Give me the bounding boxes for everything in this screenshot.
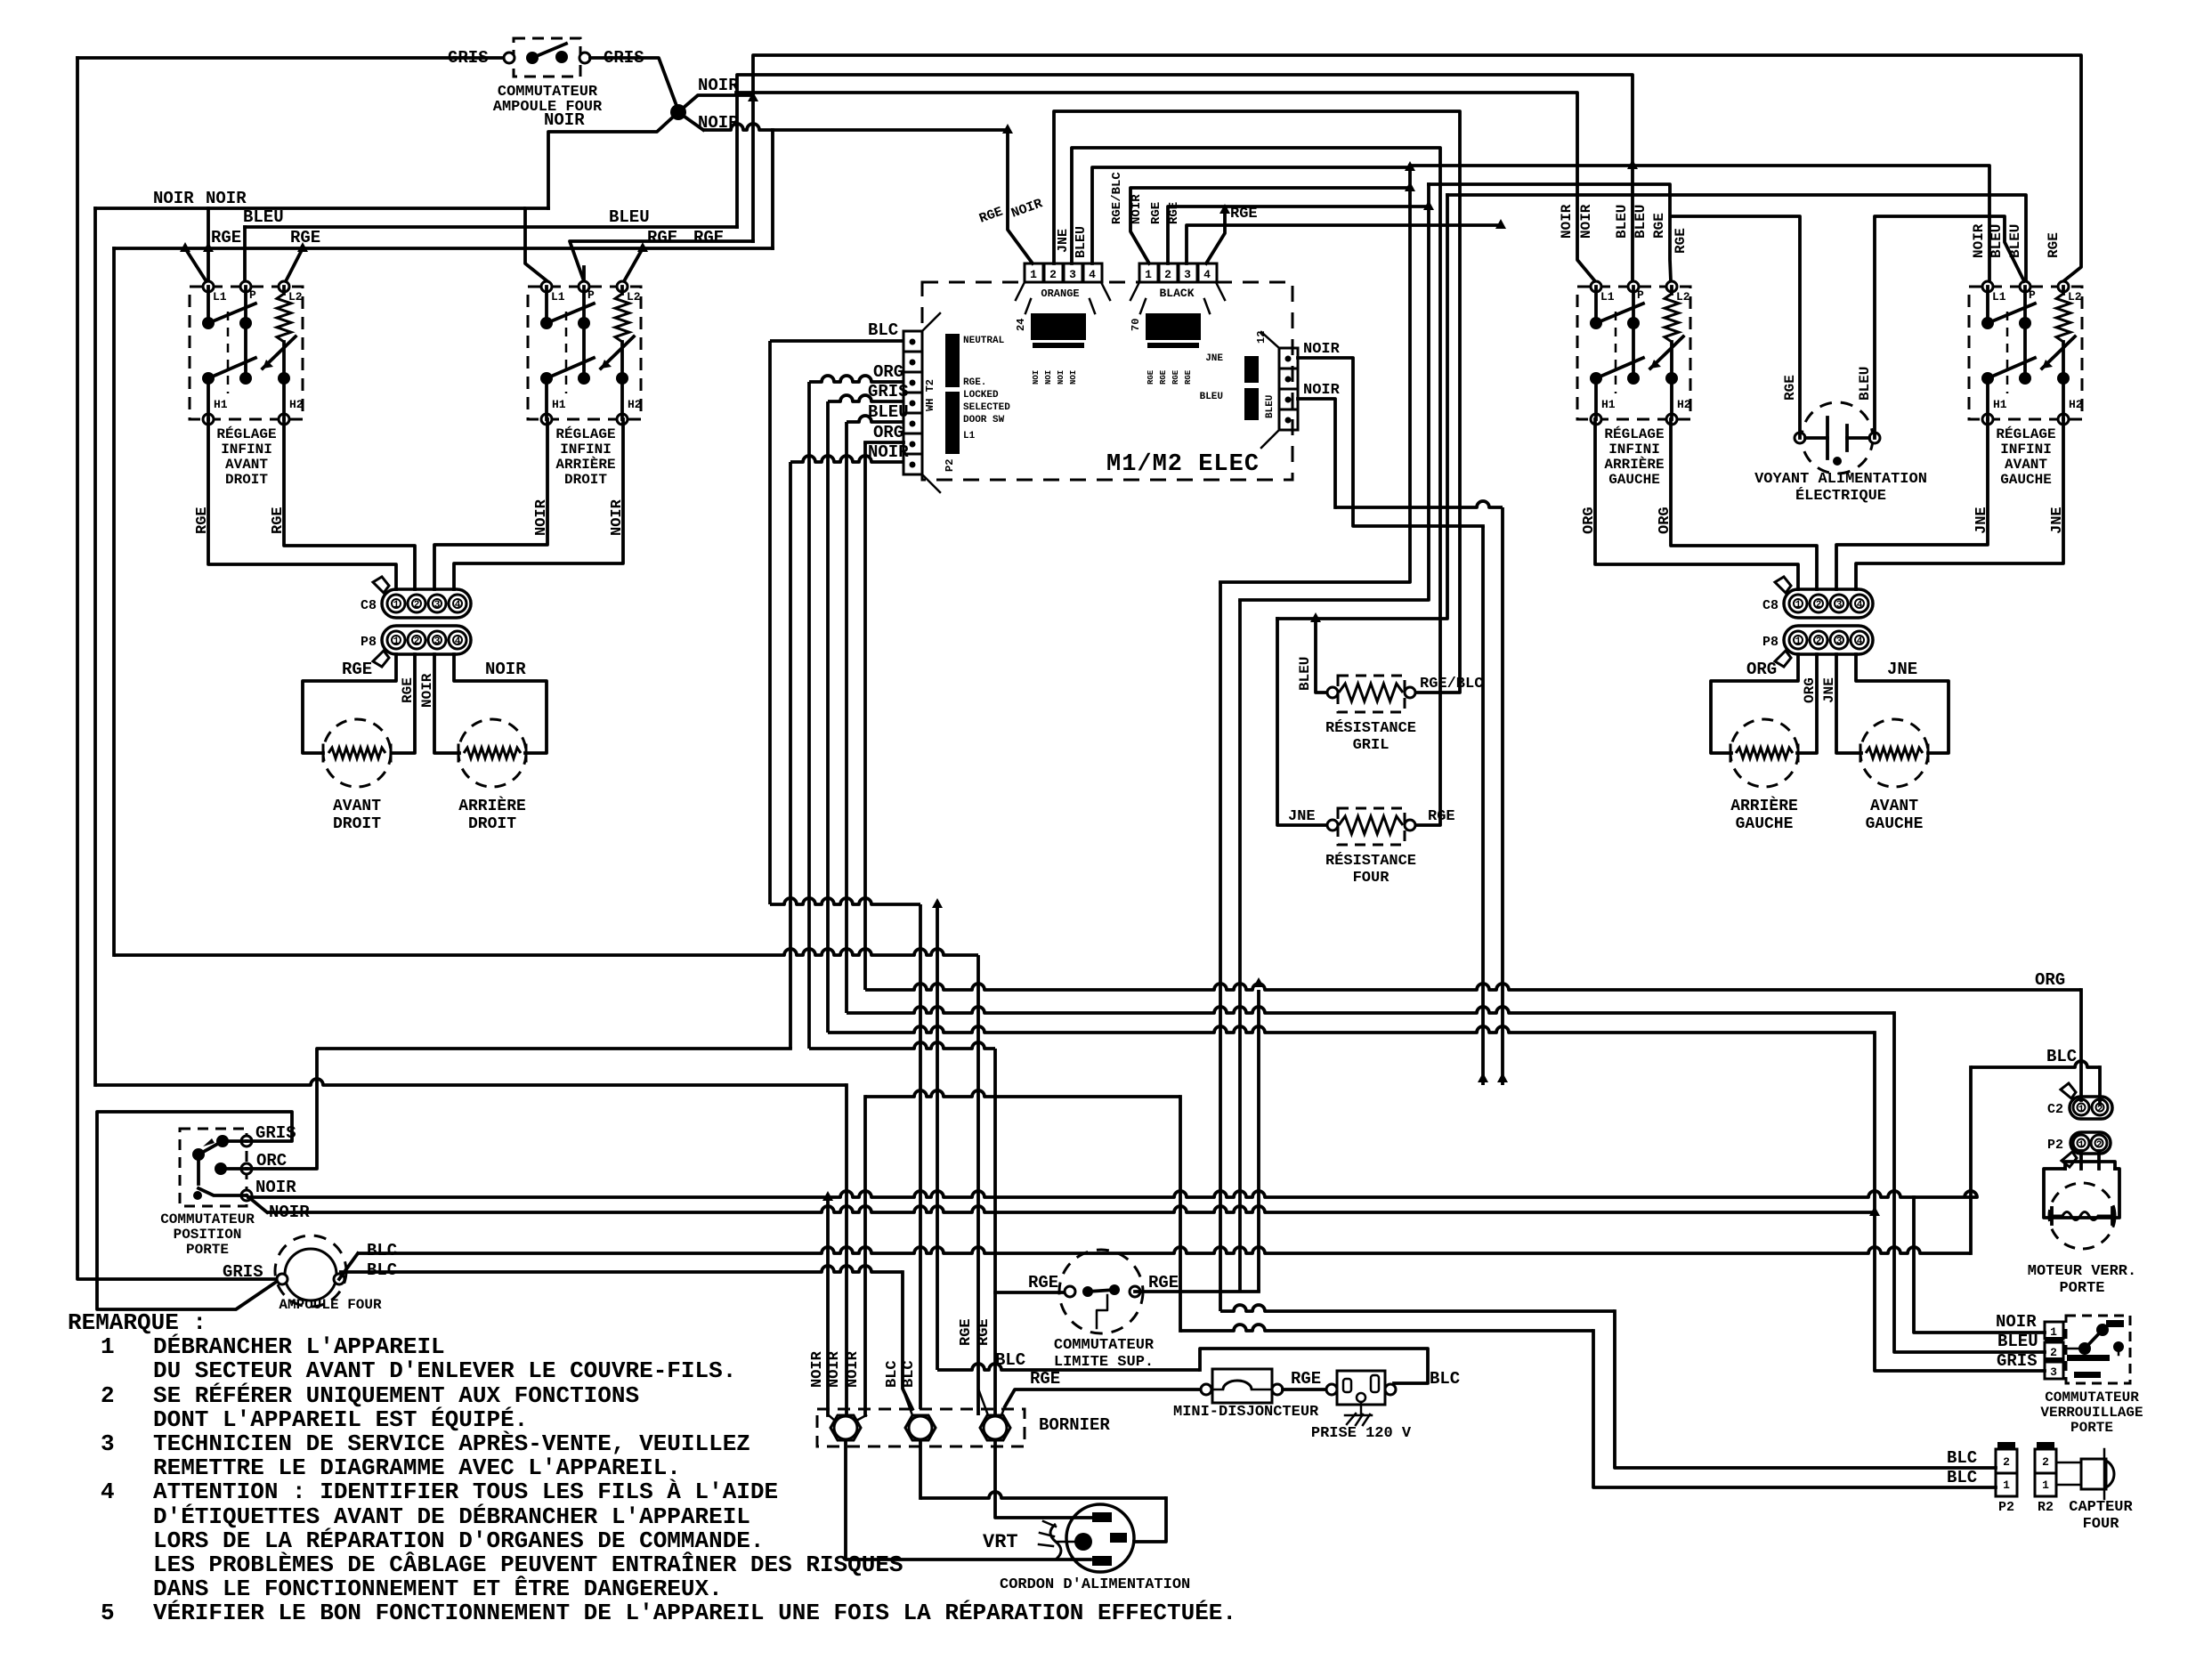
wire NOIR drop to L1 left switch: [207, 208, 210, 281]
wire RGE to voyant: [1671, 216, 1800, 438]
connector R2 capteur: [2035, 1449, 2056, 1473]
funnel BLACK: [1130, 282, 1139, 300]
svg-text:RGE: RGE: [1028, 1273, 1058, 1292]
wire BLC to bornier post2 from lamp: [903, 1272, 912, 1409]
svg-text:L1: L1: [1600, 290, 1615, 304]
svg-text:NOIR: NOIR: [845, 1350, 862, 1388]
wire capteur BLC lower chain: [1179, 1097, 1182, 1331]
svg-text:L1: L1: [213, 290, 227, 304]
capteur four sensor bulb: [2056, 1462, 2081, 1464]
wire ORG riser down to limite sup line: [807, 382, 811, 1049]
svg-text:P2: P2: [1998, 1500, 2014, 1515]
svg-text:M1/M2 ELEC: M1/M2 ELEC: [1106, 451, 1260, 478]
svg-text:NOI: NOI: [1069, 370, 1078, 385]
svg-text:AVANT: AVANT: [2005, 457, 2047, 473]
switch reglage infini arriere droit: [528, 287, 641, 419]
svg-text:RÉGLAGE: RÉGLAGE: [1604, 425, 1664, 442]
svg-text:ARRIÈRE: ARRIÈRE: [1730, 796, 1798, 815]
svg-text:PORTE: PORTE: [186, 1242, 229, 1258]
svg-text:NOIR: NOIR: [206, 189, 247, 208]
svg-text:NOIR: NOIR: [544, 110, 585, 130]
wire NOIR2 door bus: [247, 1195, 267, 1212]
wire RGE diagonal to L2 second switch: [624, 248, 643, 281]
svg-text:GAUCHE: GAUCHE: [1608, 472, 1660, 488]
svg-text:H2: H2: [628, 398, 642, 411]
svg-text:4: 4: [101, 1479, 115, 1505]
svg-text:12: 12: [1255, 331, 1268, 344]
connector P8 left: [382, 626, 471, 654]
svg-text:BLEU: BLEU: [1200, 392, 1223, 402]
svg-text:RÉSISTANCE: RÉSISTANCE: [1325, 719, 1416, 737]
svg-text:JNE: JNE: [1973, 506, 1990, 534]
svg-text:NOIR: NOIR: [153, 189, 194, 208]
wire post3 down to plug top: [995, 1440, 1092, 1518]
svg-text:INFINI: INFINI: [2000, 442, 2052, 458]
svg-text:RGE/BLC: RGE/BLC: [1110, 172, 1124, 224]
wire right P8 pin3 to avant gauche burner left: [1836, 654, 1861, 753]
svg-text:2: 2: [2050, 1346, 2057, 1359]
svg-text:LOCKED: LOCKED: [963, 390, 999, 401]
wire GREEN pin1 diagonal NOIR: [1008, 130, 1033, 263]
svg-text:RGE: RGE: [211, 228, 241, 247]
svg-text:2: 2: [101, 1382, 115, 1409]
svg-text:RGE: RGE: [976, 1318, 993, 1346]
svg-text:P2: P2: [944, 459, 956, 472]
switch reglage infini arriere gauche: [1577, 287, 1690, 419]
wire right P8 pin4 to avant gauche burner right: [1856, 654, 1949, 753]
svg-text:P: P: [2029, 288, 2036, 302]
wire NOIR lower from X going right: [703, 124, 773, 130]
svg-text:BLEU: BLEU: [1614, 205, 1630, 239]
wire NOIR verrouillage drop: [1914, 1197, 2045, 1333]
svg-text:LORS DE LA RÉPARATION D'ORGANE: LORS DE LA RÉPARATION D'ORGANES DE COMMA…: [153, 1527, 765, 1554]
svg-text:RGE: RGE: [1148, 1273, 1179, 1292]
svg-text:GRIL: GRIL: [1353, 737, 1390, 754]
svg-text:NOIR: NOIR: [1996, 1312, 2037, 1332]
svg-text:RÉSISTANCE: RÉSISTANCE: [1325, 852, 1416, 870]
svg-text:DROIT: DROIT: [333, 815, 381, 833]
wire riser x1666 to band: [1481, 526, 1485, 1085]
svg-text:2: 2: [1816, 600, 1822, 611]
svg-text:GRIS: GRIS: [223, 1262, 263, 1282]
switch reglage infini avant gauche: [1969, 287, 2082, 419]
svg-text:NOIR: NOIR: [1303, 382, 1341, 399]
svg-text:NOI: NOI: [1044, 370, 1053, 385]
svg-text:1: 1: [393, 600, 400, 611]
svg-text:VRT: VRT: [983, 1531, 1018, 1553]
wire VRT ground to plug: [1057, 1541, 1074, 1543]
svg-text:RGE.: RGE.: [963, 377, 986, 388]
svg-text:RGE: RGE: [1030, 1369, 1060, 1389]
svg-text:ORG: ORG: [1657, 506, 1673, 534]
wire BLC down to bornier post2: [919, 904, 922, 1409]
wire BLC lower run: [770, 898, 920, 904]
svg-text:1: 1: [101, 1333, 115, 1360]
wire NOIR door bus: [247, 1191, 1977, 1197]
wire P8 pin4 to arriere droit burner right: [454, 654, 547, 753]
svg-text:C8: C8: [361, 598, 377, 613]
svg-text:RGE: RGE: [693, 228, 724, 247]
moteur verrouillage porte door lock motor: [2079, 1151, 2083, 1169]
wire limite sup riser x1414: [1257, 990, 1260, 1292]
wire limite sup right to riser U: [1135, 1290, 1259, 1293]
svg-text:GRIS: GRIS: [868, 382, 909, 401]
wire NOIR upper from X to bus: [678, 95, 753, 112]
wire GRIS from 7-pin: [828, 395, 903, 401]
svg-text:GAUCHE: GAUCHE: [1866, 815, 1924, 833]
svg-text:L2: L2: [1676, 290, 1690, 304]
connector C2: [2070, 1097, 2112, 1119]
svg-text:BLC: BLC: [868, 320, 898, 340]
svg-text:C8: C8: [1762, 598, 1779, 613]
svg-text:JNE: JNE: [2049, 506, 2066, 534]
wire bus Y84 BLEU to rear-left switch P: [737, 75, 1633, 281]
svg-text:RGE: RGE: [1428, 808, 1455, 825]
svg-text:DROIT: DROIT: [468, 815, 516, 833]
verrouillage switch box: [2066, 1316, 2130, 1383]
svg-text:MOTEUR VERR.: MOTEUR VERR.: [2028, 1263, 2136, 1280]
black bars BLACK: [1146, 313, 1201, 340]
wire BLACK pin1 up: [1130, 188, 1410, 263]
svg-text:NOIR: NOIR: [1130, 194, 1144, 224]
wire ORG2 riser down to band: [863, 442, 867, 990]
svg-text:BLEU: BLEU: [1997, 1332, 2038, 1351]
wire staircase Y654: [1220, 166, 1410, 582]
svg-text:DROIT: DROIT: [564, 472, 607, 488]
wire RGE diagonal to L1 left switch: [185, 248, 207, 283]
svg-text:NOIR: NOIR: [609, 498, 626, 536]
wire verrouillage GRIS drop: [1875, 1033, 2045, 1371]
wire four left drop: [1277, 619, 1333, 825]
wire H1 avant gauche to right C8 pin3: [1836, 419, 1988, 589]
wire left rail x87 down to lamp: [77, 58, 277, 1279]
svg-text:BLC: BLC: [1947, 1468, 1977, 1487]
svg-text:R2: R2: [2038, 1500, 2054, 1515]
funnel post2: [903, 1389, 912, 1415]
svg-text:H1: H1: [214, 398, 228, 411]
svg-text:BLC: BLC: [367, 1260, 397, 1280]
wire BLC prise return: [937, 1364, 1200, 1370]
svg-text:COMMUTATEUR: COMMUTATEUR: [160, 1211, 255, 1227]
wire staircase Y674: [1240, 184, 1429, 600]
svg-text:DU SECTEUR AVANT D'ENLEVER LE: DU SECTEUR AVANT D'ENLEVER LE COUVRE-FIL…: [153, 1357, 736, 1384]
svg-text:RGE/BLC: RGE/BLC: [1420, 676, 1483, 693]
wire gril left drop BLEU: [1316, 619, 1326, 693]
svg-text:PORTE: PORTE: [2070, 1420, 2113, 1436]
svg-text:H2: H2: [1677, 398, 1691, 411]
svg-text:WH T2: WH T2: [924, 379, 936, 411]
svg-text:NOIR: NOIR: [1971, 223, 1987, 258]
wire GRIS from left rail to oven-lamp switch: [77, 56, 504, 60]
svg-text:POSITION: POSITION: [174, 1227, 242, 1243]
svg-text:2: 2: [2003, 1455, 2010, 1469]
connector C8 right: [1784, 589, 1873, 618]
wire NOIR from X down-left to GREEN connector pin1 riser: [773, 128, 1008, 132]
connector GREEN 4-pin: [1025, 263, 1043, 282]
wire BLC riser down: [768, 341, 772, 904]
svg-text:CAPTEUR: CAPTEUR: [2069, 1499, 2133, 1516]
wire limite sup riser x1393: [1238, 600, 1242, 1292]
black bars 7-pin: [945, 334, 960, 387]
ground symbol prise: [1360, 1402, 1363, 1414]
wire RGE bus row left: [114, 247, 773, 250]
svg-text:RGE: RGE: [342, 660, 372, 679]
svg-text:H2: H2: [2069, 398, 2083, 411]
svg-text:BLC: BLC: [884, 1360, 901, 1388]
wire NOIR bus row left: [95, 208, 547, 281]
svg-text:RGE: RGE: [1230, 206, 1258, 223]
wire BLEU to voyant: [1875, 216, 2024, 438]
svg-text:2: 2: [2097, 1105, 2103, 1115]
svg-text:JNE: JNE: [1288, 808, 1316, 825]
bornier terminal block: [817, 1409, 1025, 1446]
svg-text:RGE: RGE: [1149, 202, 1163, 224]
wire BLEU drop to left switch P: [243, 227, 247, 281]
svg-text:4: 4: [1857, 600, 1863, 611]
wire GRIS riser down to band: [826, 401, 830, 1033]
svg-text:P: P: [249, 288, 256, 302]
cordon d'alimentation plug: [1066, 1504, 1134, 1572]
svg-text:INFINI: INFINI: [221, 442, 272, 458]
svg-text:RGE: RGE: [1782, 375, 1798, 401]
svg-text:BORNIER: BORNIER: [1039, 1415, 1110, 1435]
wire bus Y219 to front-left switch P: [1447, 195, 2026, 281]
svg-text:BLACK: BLACK: [1159, 287, 1194, 300]
svg-text:BLC: BLC: [1430, 1369, 1460, 1389]
svg-text:RÉGLAGE: RÉGLAGE: [555, 425, 615, 442]
svg-text:ORG: ORG: [1581, 506, 1598, 534]
wire BLACK pin4 diagonal RGE: [1206, 210, 1225, 263]
wire P8 pin2 to avant droit burner right: [392, 654, 415, 753]
svg-text:4: 4: [1857, 636, 1863, 647]
wire RGE diagonal to L2 left switch: [286, 248, 303, 281]
node X junction: [670, 104, 686, 120]
svg-text:TECHNICIEN DE SERVICE APRÈS-VE: TECHNICIEN DE SERVICE APRÈS-VENTE, VEUIL…: [153, 1430, 750, 1457]
wire riser second switch P from BLEU: [582, 267, 586, 281]
wire Y1178 right to limite riser: [809, 1042, 995, 1049]
svg-text:VERROUILLAGE: VERROUILLAGE: [2040, 1405, 2143, 1421]
resistance four: [1338, 808, 1405, 845]
svg-text:RGE: RGE: [194, 506, 211, 534]
svg-text:BLEU: BLEU: [1989, 224, 2005, 258]
wire ORC door line to 7-pin NOIR riser: [247, 1049, 790, 1169]
svg-text:RGE: RGE: [400, 677, 416, 703]
connector P2 motor: [2070, 1132, 2111, 1154]
wire RGE to mini-disjoncteur: [1005, 1389, 1201, 1406]
mini-disjoncteur: [1212, 1369, 1272, 1403]
wire bus Y207 to rear-left switch L2: [1429, 184, 1671, 281]
svg-text:DÉBRANCHER L'APPAREIL: DÉBRANCHER L'APPAREIL: [153, 1333, 445, 1360]
wire verrouillage BLEU drop: [1894, 1013, 2045, 1352]
wire capteur riser x1371: [1219, 582, 1222, 1311]
svg-text:GRIS: GRIS: [1997, 1351, 2038, 1371]
svg-text:SE RÉFÉRER UNIQUEMENT AUX FONC: SE RÉFÉRER UNIQUEMENT AUX FONCTIONS: [153, 1382, 639, 1409]
wire rail x128 down: [112, 248, 116, 955]
funnel post1: [829, 1415, 835, 1421]
wire BLEU from 7-pin: [847, 416, 903, 422]
wire ORG from 7-pin: [809, 376, 903, 382]
trapezoid BLACK: [1140, 299, 1146, 313]
wire bus Y188 from M1/M2 pin4: [1092, 167, 1410, 263]
prise 120V outlet: [1337, 1371, 1385, 1405]
wire riser x1099 down to bornier post3: [976, 955, 980, 1415]
svg-text:PRISE 120 V: PRISE 120 V: [1311, 1425, 1412, 1442]
wire P8 pin3 to arriere droit burner left: [434, 654, 459, 753]
svg-text:RGE: RGE: [1147, 369, 1155, 385]
connector C8 left: [382, 589, 471, 618]
svg-text:NOIR: NOIR: [1303, 341, 1341, 358]
wire BLEU riser down to band: [845, 422, 848, 1013]
svg-text:L1: L1: [1992, 290, 2006, 304]
svg-text:70: 70: [1130, 319, 1142, 331]
wire band Y1138 to verrouillage BLEU: [847, 1007, 1894, 1013]
svg-text:RGE: RGE: [290, 228, 320, 247]
svg-text:ARRIÈRE: ARRIÈRE: [458, 796, 526, 815]
svg-text:P: P: [587, 288, 595, 302]
wire BLEU diagonal to second switch P: [570, 241, 753, 281]
wire BLC lamp lower: [339, 1266, 903, 1272]
svg-text:AVANT: AVANT: [225, 457, 268, 473]
wire bus Y166 from M1/M2 pin3 to resistance four: [1072, 148, 1440, 825]
svg-text:4: 4: [455, 600, 461, 611]
wire post2 down to plug loop: [920, 1492, 1166, 1498]
svg-text:RGE: RGE: [1184, 369, 1193, 385]
connector M1/M2 right 4-pin: [1279, 348, 1298, 369]
svg-text:3: 3: [1836, 636, 1843, 647]
wire H1 left switch down to C8 pin1: [208, 419, 396, 589]
svg-text:RGE: RGE: [1171, 369, 1180, 385]
svg-text:NOIR: NOIR: [419, 673, 435, 708]
wire BLC lamp upper to C2 riser: [339, 1253, 358, 1279]
burner arriere gauche: [1730, 719, 1798, 787]
commutateur verrouillage porte switch pins: [2045, 1322, 2063, 1339]
svg-text:BLEU: BLEU: [868, 402, 909, 422]
burner avant droit: [323, 719, 391, 787]
svg-text:BLEU: BLEU: [1857, 367, 1873, 401]
ground symbol VRT: [1050, 1524, 1061, 1560]
wire post1 down to plug: [846, 1440, 1090, 1560]
svg-text:P2: P2: [2047, 1138, 2063, 1153]
wire GRIS door loop: [97, 1112, 292, 1309]
svg-text:4: 4: [455, 636, 461, 647]
svg-text:LES PROBLÈMES DE CÂBLAGE PEUVE: LES PROBLÈMES DE CÂBLAGE PEUVENT ENTRAÎN…: [153, 1551, 903, 1578]
svg-text:ORG: ORG: [873, 423, 903, 442]
svg-text:1: 1: [1795, 600, 1802, 611]
wire riser x1688 to band: [1501, 507, 1504, 1085]
svg-text:2: 2: [1816, 636, 1822, 647]
svg-text:RGE: RGE: [1167, 202, 1181, 224]
wire BLC riser x1053: [936, 904, 939, 1370]
svg-text:3: 3: [434, 636, 441, 647]
svg-text:L2: L2: [2068, 290, 2082, 304]
svg-text:BLC: BLC: [1947, 1448, 1977, 1468]
svg-text:GAUCHE: GAUCHE: [2000, 472, 2052, 488]
svg-text:NOIR: NOIR: [868, 442, 909, 462]
svg-text:NOIR: NOIR: [485, 660, 526, 679]
wire BLEU2 riser corner: [751, 95, 755, 241]
svg-text:H1: H1: [1601, 398, 1616, 411]
svg-text:RÉGLAGE: RÉGLAGE: [216, 425, 276, 442]
svg-text:COMMUTATEUR: COMMUTATEUR: [1054, 1337, 1155, 1354]
black bars GREEN: [1031, 313, 1086, 340]
svg-text:AVANT: AVANT: [1870, 798, 1918, 815]
wire riser limite sup RGE from post3: [993, 1049, 997, 1415]
svg-text:ORG: ORG: [873, 362, 903, 382]
svg-text:BLEU: BLEU: [1297, 657, 1313, 691]
wire band Y1073 to bornier post3 riser: [114, 949, 978, 955]
svg-text:BLEU: BLEU: [1074, 226, 1089, 258]
wire NOIR right connector pin1: [1298, 358, 1483, 526]
commutateur position porte door switch: [180, 1129, 247, 1206]
svg-text:NOI: NOI: [1057, 370, 1065, 385]
resistance gril: [1338, 676, 1405, 712]
svg-text:NOI: NOI: [1032, 370, 1041, 385]
funnel right connector: [1261, 332, 1279, 348]
svg-text:INFINI: INFINI: [560, 442, 612, 458]
svg-text:BLC: BLC: [901, 1360, 918, 1388]
wire NOIR right connector pin3: [1298, 399, 1335, 507]
svg-text:BLC: BLC: [367, 1241, 397, 1260]
svg-text:L1: L1: [551, 290, 565, 304]
svg-text:RÉGLAGE: RÉGLAGE: [1996, 425, 2055, 442]
svg-text:2: 2: [2042, 1455, 2049, 1469]
svg-text:DONT L'APPAREIL EST ÉQUIPÉ.: DONT L'APPAREIL EST ÉQUIPÉ.: [153, 1406, 528, 1433]
wire P8 pin1 to avant droit burner: [303, 654, 396, 753]
svg-text:H2: H2: [289, 398, 304, 411]
svg-text:2: 2: [1164, 268, 1171, 281]
wire H2 second switch down to C8 pin4: [454, 419, 623, 589]
svg-text:FOUR: FOUR: [1353, 870, 1390, 887]
wire H1 second switch down to C8 pin3: [434, 419, 547, 589]
svg-text:BLEU: BLEU: [243, 207, 284, 227]
wire right P8 pin2 to arriere gauche burner right: [1797, 654, 1817, 753]
svg-text:BLEU: BLEU: [1633, 205, 1649, 239]
svg-text:1: 1: [1030, 268, 1037, 281]
svg-text:COMMUTATEUR: COMMUTATEUR: [2045, 1389, 2139, 1406]
wire right P8 pin1 to arriere gauche burner: [1711, 654, 1798, 753]
wire staircase Y695: [1277, 195, 1447, 619]
svg-text:3: 3: [1184, 268, 1191, 281]
wire H2 left switch down to C8 pin2: [284, 419, 415, 589]
svg-text:P8: P8: [1762, 635, 1779, 650]
ampoule four oven lamp: [275, 1235, 346, 1307]
svg-text:3: 3: [434, 600, 441, 611]
svg-text:1: 1: [2078, 1105, 2085, 1115]
wire ORG2 from 7-pin: [865, 441, 903, 444]
svg-text:D'ÉTIQUETTES AVANT DE DÉBRANCH: D'ÉTIQUETTES AVANT DE DÉBRANCHER L'APPAR…: [153, 1503, 750, 1530]
burner arriere droit: [458, 719, 526, 787]
svg-text:2: 2: [414, 636, 420, 647]
wire band Y1112 ORG to C2: [865, 984, 2081, 990]
svg-text:NOIR: NOIR: [698, 113, 739, 133]
svg-text:2: 2: [1049, 268, 1057, 281]
wire NOIR riser down to door ORC line: [789, 462, 792, 1049]
svg-text:24: 24: [1015, 319, 1027, 331]
svg-text:VÉRIFIER LE BON FONCTIONNEMENT: VÉRIFIER LE BON FONCTIONNEMENT DE L'APPA…: [153, 1600, 1236, 1626]
svg-text:REMETTRE LE DIAGRAMME AVEC L'A: REMETTRE LE DIAGRAMME AVEC L'APPAREIL.: [153, 1454, 681, 1481]
svg-text:NOIR: NOIR: [809, 1350, 826, 1388]
svg-text:SELECTED: SELECTED: [963, 402, 1010, 413]
svg-text:MINI-DISJONCTEUR: MINI-DISJONCTEUR: [1173, 1404, 1319, 1421]
wire capteur BLC upper chain: [1220, 1305, 1615, 1311]
svg-text:C2: C2: [2047, 1102, 2063, 1117]
svg-text:ORANGE: ORANGE: [1041, 288, 1079, 300]
svg-text:DANS LE FONCTIONNEMENT ET ÊTRE: DANS LE FONCTIONNEMENT ET ÊTRE DANGEREUX…: [153, 1576, 723, 1602]
svg-text:P: P: [1637, 288, 1644, 302]
wire Y1232 capteur line from bornier post1: [865, 1090, 1180, 1097]
svg-text:L2: L2: [627, 290, 641, 304]
wire BLACK pin3 up: [1187, 225, 1501, 263]
